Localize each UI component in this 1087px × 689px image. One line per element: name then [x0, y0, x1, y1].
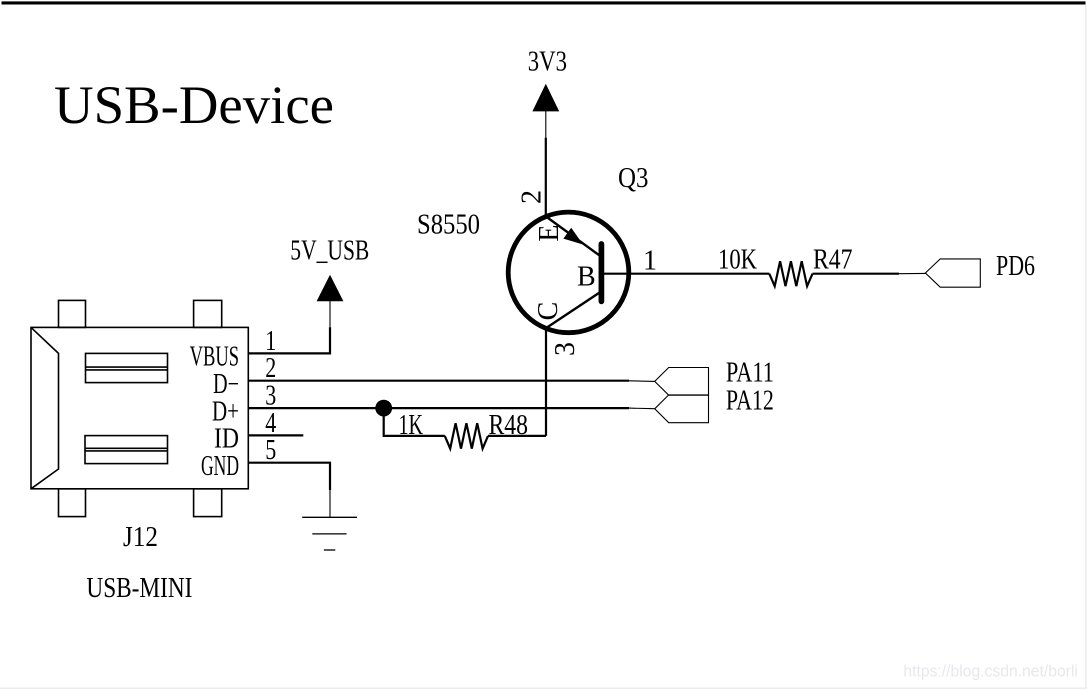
wire Q3 base to R47	[601, 273, 769, 275]
svg-text:https://blog.csdn.net/borli: https://blog.csdn.net/borli	[903, 662, 1078, 681]
wire 3V3 to Q3 emitter	[545, 138, 547, 217]
svg-text:5V_USB: 5V_USB	[290, 236, 369, 267]
svg-text:2: 2	[265, 353, 276, 384]
wire stub ID pin	[249, 434, 304, 436]
wire R48 to collector	[488, 435, 546, 437]
svg-text:D−: D−	[213, 369, 239, 400]
thin lead D- to PA11	[629, 380, 655, 383]
svg-text:C: C	[533, 302, 564, 321]
pin 1 VBUS	[190, 326, 277, 373]
svg-text:B: B	[577, 262, 596, 293]
svg-text:10K: 10K	[718, 245, 757, 276]
power symbol 5V_USB	[317, 275, 344, 328]
port PD6	[925, 259, 980, 287]
svg-text:USB-MINI: USB-MINI	[86, 573, 192, 604]
svg-text:1K: 1K	[399, 410, 424, 441]
resistor R48	[445, 423, 488, 448]
wire VBUS pin to 5V_USB	[249, 327, 331, 353]
wire R47 to PD6	[813, 273, 900, 275]
svg-text:USB-Device: USB-Device	[54, 75, 334, 135]
wire D- to port PA11	[249, 380, 630, 382]
svg-text:J12: J12	[123, 522, 158, 553]
svg-text:S8550: S8550	[417, 210, 480, 241]
thin lead D+ to PA12	[629, 407, 655, 410]
wire Q3 collector down	[545, 328, 547, 436]
transistor Q3 S8550	[508, 212, 629, 333]
svg-text:PA11: PA11	[726, 358, 774, 389]
svg-text:3: 3	[550, 342, 581, 356]
wire junction to R48	[384, 408, 445, 436]
svg-text:3V3: 3V3	[528, 47, 567, 78]
resistor R47	[769, 261, 812, 286]
port PA11	[655, 368, 709, 396]
svg-text:1: 1	[643, 246, 657, 277]
svg-text:Q3: Q3	[618, 163, 649, 194]
port PA12	[655, 395, 709, 423]
wire D+ to port PA12	[249, 407, 630, 409]
pin 5 GND	[201, 435, 276, 482]
thin lead to PD6	[899, 272, 925, 274]
pin 2 D−	[213, 353, 276, 400]
pin 3 D+	[212, 381, 276, 428]
svg-text:PD6: PD6	[996, 251, 1035, 282]
ground symbol	[302, 490, 357, 550]
power symbol 3V3	[532, 84, 559, 138]
svg-text:GND: GND	[201, 451, 239, 482]
svg-text:E: E	[534, 224, 565, 241]
connector J12 USB-MINI body	[31, 300, 248, 516]
pin 4 ID	[214, 408, 276, 455]
svg-text:PA12: PA12	[726, 386, 774, 417]
svg-text:2: 2	[517, 190, 548, 204]
svg-text:5: 5	[265, 435, 276, 466]
wire GND pin to ground	[249, 463, 331, 490]
junction dot on D+	[375, 400, 392, 417]
svg-text:R47: R47	[813, 245, 853, 276]
